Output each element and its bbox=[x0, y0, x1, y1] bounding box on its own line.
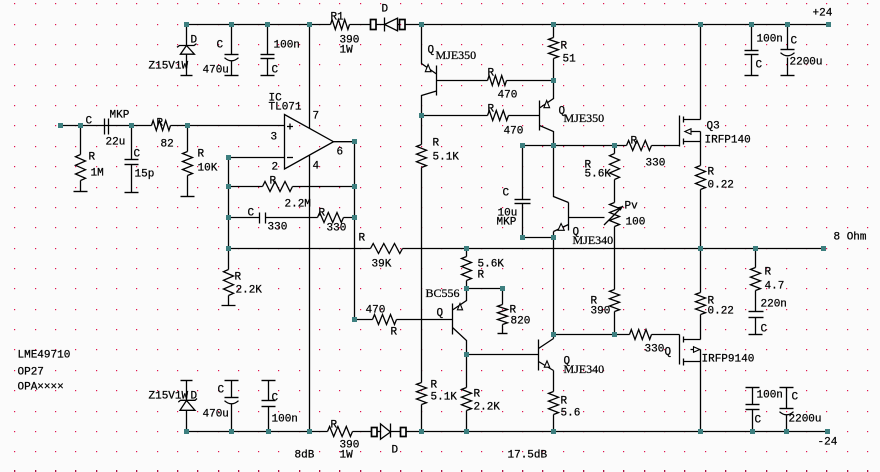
svg-text:R: R bbox=[431, 380, 438, 392]
transistor Q MJE350 (Q2) bbox=[540, 81, 554, 146]
svg-text:5.6K: 5.6K bbox=[585, 169, 612, 181]
svg-text:R: R bbox=[331, 420, 338, 432]
driver stage junctions bbox=[419, 78, 617, 357]
resistor R1 390 1W (in +24 rail) bbox=[331, 20, 350, 30]
svg-text:2.2M: 2.2M bbox=[285, 199, 311, 211]
resistor R 39K (feedback) bbox=[371, 244, 403, 254]
wire 470 ohm to BC556 base bbox=[355, 319, 453, 321]
wire op-amp inverting input row bbox=[229, 157, 285, 159]
svg-text:R: R bbox=[359, 233, 366, 245]
resistor R 5.6K (middle) bbox=[610, 146, 620, 203]
resistor R 5.6 (emitter) bbox=[549, 392, 559, 432]
zener diode D Z15V1W (top) bbox=[177, 25, 197, 76]
svg-text:330: 330 bbox=[327, 223, 347, 235]
resistor R 10K bbox=[181, 126, 195, 197]
wire bias base to pot wiper bbox=[569, 217, 605, 219]
BC556 emitter arrow bbox=[457, 304, 462, 310]
svg-text:R: R bbox=[631, 136, 638, 148]
svg-text:R: R bbox=[708, 167, 715, 179]
svg-text:MKP: MKP bbox=[110, 110, 130, 122]
svg-text:100n: 100n bbox=[757, 390, 783, 402]
svg-text:470u: 470u bbox=[203, 409, 229, 421]
resistor R 1M bbox=[74, 126, 88, 192]
wire emitter node row bbox=[467, 288, 503, 290]
svg-text:Z15V1W: Z15V1W bbox=[149, 391, 189, 403]
op-amp IC TL071 bbox=[285, 115, 334, 170]
svg-text:5.6: 5.6 bbox=[561, 408, 581, 420]
svg-text:17.5dB: 17.5dB bbox=[508, 450, 548, 462]
diode D (bottom) pad 2 bbox=[401, 428, 407, 437]
svg-text:R1: R1 bbox=[331, 12, 345, 24]
svg-text:C: C bbox=[218, 385, 225, 397]
svg-text:82: 82 bbox=[161, 139, 174, 151]
svg-text:2.2K: 2.2K bbox=[236, 285, 263, 297]
svg-text:1M: 1M bbox=[91, 168, 104, 180]
resistor R 51 bbox=[549, 25, 559, 81]
capacitor C 15p bbox=[125, 126, 139, 193]
svg-text:100: 100 bbox=[626, 217, 646, 229]
wire op-amp output vertical bbox=[354, 142, 356, 320]
Q1 emitter arrow bbox=[425, 65, 431, 72]
svg-text:C: C bbox=[134, 149, 141, 161]
resistor R 2.2K (feedback to ground) bbox=[222, 249, 236, 306]
resistor R 5.1K (lower) bbox=[417, 383, 427, 432]
capacitor C 470u (top left) bbox=[225, 25, 239, 76]
svg-text:2200u: 2200u bbox=[789, 414, 822, 426]
svg-text:D: D bbox=[191, 391, 198, 403]
wire pin 7 (V+) bbox=[309, 25, 311, 129]
svg-text:10K: 10K bbox=[198, 163, 218, 175]
Q2 emitter arrow bbox=[544, 101, 550, 108]
svg-text:3: 3 bbox=[271, 132, 278, 144]
svg-text:Z15V1W: Z15V1W bbox=[149, 61, 189, 73]
capacitor C 22u MKP bbox=[105, 119, 109, 135]
bias transistor emitter arrow bbox=[558, 224, 564, 231]
svg-text:0.22: 0.22 bbox=[708, 180, 734, 192]
svg-text:R: R bbox=[488, 104, 495, 116]
wire C10u bottom row bbox=[523, 237, 554, 239]
svg-text:C: C bbox=[248, 208, 255, 220]
svg-text:R: R bbox=[235, 272, 242, 284]
wire Q1 base row (470 top) bbox=[437, 80, 554, 82]
output rail junctions bbox=[464, 246, 826, 251]
capacitor C 220n (Zobel) bbox=[749, 312, 764, 335]
capacitor C 100n (top right) bbox=[745, 25, 759, 76]
Q3 gate arrow bbox=[685, 129, 691, 135]
zener diode D Z15V1W (bottom) bbox=[178, 381, 197, 432]
capacitor C 10u MKP bbox=[515, 146, 531, 238]
svg-text:D: D bbox=[392, 445, 399, 457]
capacitor C 100n (top left) bbox=[261, 25, 275, 76]
svg-text:100n: 100n bbox=[757, 34, 783, 46]
svg-text:MJE350: MJE350 bbox=[436, 48, 477, 62]
transistor Q MJE350 (Q1) bbox=[422, 25, 437, 116]
input node junctions bbox=[58, 123, 190, 128]
wire feedback C330/R330 row bbox=[229, 217, 355, 219]
svg-text:Q3: Q3 bbox=[707, 121, 720, 133]
svg-text:R: R bbox=[270, 176, 277, 188]
potentiometer Pv 100 bbox=[604, 203, 623, 227]
transistor Q MJE340 (lower) bbox=[539, 335, 554, 392]
svg-text:Q: Q bbox=[665, 347, 672, 359]
svg-text:1W: 1W bbox=[340, 450, 354, 462]
svg-text:R: R bbox=[478, 270, 485, 282]
svg-text:22u: 22u bbox=[106, 137, 126, 149]
resistor R 330 (IRFP140 gate) bbox=[627, 141, 652, 151]
svg-text:MKP: MKP bbox=[497, 217, 517, 229]
resistor R 820 bbox=[498, 289, 508, 334]
mosfet Q IRFP9140 bbox=[680, 315, 701, 432]
svg-text:R: R bbox=[561, 396, 568, 408]
capacitor C 100n (bottom left) bbox=[262, 381, 276, 432]
wire feedback 2.2M row bbox=[229, 186, 355, 188]
resistor R 390 (middle) bbox=[610, 227, 620, 335]
svg-text:330: 330 bbox=[646, 158, 666, 170]
svg-text:2: 2 bbox=[272, 162, 279, 174]
svg-text:MJE340: MJE340 bbox=[573, 233, 614, 247]
resistor R 2.2K (middle bottom) bbox=[462, 355, 472, 432]
resistor R 0.22 (lower) bbox=[696, 249, 706, 315]
diode D (bottom, in -24 rail) pad 1 bbox=[372, 428, 378, 437]
svg-text:820: 820 bbox=[511, 316, 531, 328]
wire input row bbox=[61, 125, 285, 127]
svg-text:R: R bbox=[474, 389, 481, 401]
svg-text:15p: 15p bbox=[135, 169, 155, 181]
svg-text:C: C bbox=[792, 392, 799, 404]
resistor R 2.2M (feedback) bbox=[263, 182, 293, 192]
resistor R 82 bbox=[152, 121, 171, 131]
svg-text:Q: Q bbox=[428, 45, 435, 57]
capacitor C 2200u (top right) bbox=[781, 25, 795, 76]
lower MJE340 emitter arrow bbox=[544, 361, 549, 367]
wire output rail 8 Ohm bbox=[229, 248, 824, 250]
svg-text:220n: 220n bbox=[761, 299, 787, 311]
resistor R 470 (top) bbox=[488, 76, 507, 86]
transistor Q MJE340 (bias spreader) bbox=[554, 146, 569, 238]
svg-text:D: D bbox=[382, 4, 389, 16]
svg-text:4.7: 4.7 bbox=[765, 281, 785, 293]
wire gate drive row bottom bbox=[554, 334, 680, 336]
svg-text:BC556: BC556 bbox=[426, 286, 460, 300]
svg-text:Pv: Pv bbox=[625, 201, 639, 213]
svg-text:8 Ohm: 8 Ohm bbox=[834, 232, 867, 244]
wire BC556 collector row bbox=[467, 354, 539, 356]
junctions on -24 rail bbox=[184, 429, 830, 434]
svg-text:MJE350: MJE350 bbox=[564, 111, 605, 125]
svg-text:R: R bbox=[765, 267, 772, 279]
wire -24 rail bbox=[187, 431, 828, 433]
svg-text:D: D bbox=[191, 35, 198, 47]
wire op-amp output pin 6 bbox=[334, 141, 355, 143]
svg-text:TL071: TL071 bbox=[269, 102, 302, 114]
svg-text:470u: 470u bbox=[203, 65, 229, 77]
svg-text:OP27: OP27 bbox=[18, 367, 44, 379]
wire Q2 base row (470 bottom) bbox=[422, 115, 540, 117]
resistor R 4.7 (Zobel) bbox=[751, 249, 761, 312]
svg-text:OPA××××: OPA×××× bbox=[18, 382, 64, 394]
svg-text:C: C bbox=[503, 188, 510, 200]
resistor R 330 (IRFP9140 gate) bbox=[630, 330, 652, 340]
svg-text:330: 330 bbox=[268, 222, 288, 234]
capacitor C 470u (bottom left) bbox=[225, 381, 239, 432]
resistor R 5.6K (BC556 emitter) bbox=[462, 249, 472, 289]
svg-text:IRFP9140: IRFP9140 bbox=[702, 354, 755, 366]
svg-text:R: R bbox=[561, 41, 568, 53]
svg-text:IRFP140: IRFP140 bbox=[705, 135, 751, 147]
svg-text:470: 470 bbox=[366, 305, 386, 317]
wire bias chain vertical bbox=[553, 238, 555, 335]
svg-text:C: C bbox=[272, 393, 279, 405]
capacitor C 2200u (bottom right) bbox=[780, 388, 794, 432]
svg-text:Q: Q bbox=[437, 308, 444, 320]
capacitor C 330 (feedback) bbox=[260, 213, 266, 224]
svg-text:330: 330 bbox=[645, 344, 665, 356]
capacitor C 100n (bottom right) bbox=[746, 388, 760, 432]
svg-text:+24: +24 bbox=[813, 8, 833, 20]
svg-text:2200u: 2200u bbox=[790, 57, 823, 69]
svg-text:7: 7 bbox=[313, 111, 320, 123]
svg-text:C: C bbox=[217, 40, 224, 52]
svg-text:1W: 1W bbox=[340, 45, 354, 57]
svg-text:LME49710: LME49710 bbox=[18, 350, 71, 362]
svg-text:100n: 100n bbox=[272, 414, 298, 426]
svg-text:C: C bbox=[86, 116, 93, 128]
resistor R 390 1W (in -24 rail) bbox=[328, 427, 353, 437]
svg-text:5.1K: 5.1K bbox=[433, 152, 460, 164]
svg-text:C: C bbox=[761, 324, 768, 336]
svg-text:8dB: 8dB bbox=[295, 450, 315, 462]
svg-text:2.2K: 2.2K bbox=[474, 402, 501, 414]
diode D (top) symbol bbox=[385, 18, 398, 32]
transistor Q BC556 bbox=[453, 289, 467, 355]
svg-text:R: R bbox=[433, 138, 440, 150]
svg-text:R: R bbox=[198, 149, 205, 161]
svg-text:C: C bbox=[756, 60, 763, 72]
svg-text:MJE340: MJE340 bbox=[564, 362, 605, 376]
wire feedback left vertical bbox=[228, 158, 230, 249]
svg-text:C: C bbox=[755, 415, 762, 427]
svg-text:R: R bbox=[391, 327, 398, 339]
IRFP9140 gate arrow bbox=[694, 347, 700, 353]
svg-text:5.1K: 5.1K bbox=[431, 392, 458, 404]
diode D (bottom) symbol bbox=[381, 424, 391, 440]
svg-text:R: R bbox=[157, 118, 164, 130]
mosfet Q3 IRFP140 bbox=[680, 25, 701, 166]
svg-text:100n: 100n bbox=[274, 40, 300, 52]
wire +24 rail bbox=[187, 24, 829, 26]
resistor R 0.22 (upper) bbox=[696, 166, 706, 249]
svg-text:R: R bbox=[89, 152, 96, 164]
resistor R 5.1K (upper) bbox=[417, 116, 427, 383]
svg-text:470: 470 bbox=[504, 126, 524, 138]
svg-text:R: R bbox=[488, 68, 495, 80]
resistor R 470 (BC556 base) bbox=[373, 315, 397, 325]
svg-text:390: 390 bbox=[591, 306, 611, 318]
svg-text:C: C bbox=[791, 36, 798, 48]
svg-text:0.22: 0.22 bbox=[708, 306, 734, 318]
svg-text:R: R bbox=[319, 208, 326, 220]
diode D (top, in +24 rail) pad 1 bbox=[371, 20, 377, 30]
junctions on +24 rail bbox=[184, 22, 831, 27]
feedback network junctions bbox=[226, 139, 357, 322]
svg-text:C: C bbox=[272, 65, 279, 77]
svg-text:4: 4 bbox=[313, 161, 320, 173]
diode D (top) pad 2 bbox=[400, 20, 406, 30]
wire pin 4 (V-) bbox=[309, 156, 311, 432]
svg-text:39K: 39K bbox=[372, 259, 392, 271]
svg-text:6: 6 bbox=[337, 147, 344, 159]
svg-text:51: 51 bbox=[563, 54, 577, 66]
wire gate drive row top bbox=[523, 145, 680, 147]
svg-text:-24: -24 bbox=[818, 437, 838, 449]
svg-text:470: 470 bbox=[498, 90, 518, 102]
resistor R 330 (feedback) bbox=[318, 213, 344, 223]
resistor R 470 (bottom) bbox=[488, 111, 509, 121]
